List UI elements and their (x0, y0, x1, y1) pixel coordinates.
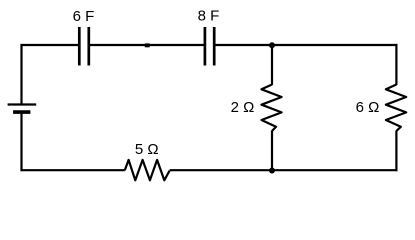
wire from top junction to top-right corner (272, 44, 398, 46)
resistor R1 5 ohm (125, 160, 170, 180)
svg-text:6 Ω: 6 Ω (356, 99, 380, 116)
resistor R3 6 ohm (386, 85, 406, 132)
node bottom junction dot (269, 168, 275, 174)
wire middle branch lower (271, 131, 273, 171)
node top junction dot (269, 42, 275, 48)
capacitor C2 8 F (205, 27, 214, 66)
capacitor C1 6 F (79, 27, 89, 66)
label 5 ohm (135, 141, 159, 158)
svg-text:6 F: 6 F (73, 8, 95, 25)
wire bottom right segment (272, 169, 398, 171)
resistor R2 2 ohm (262, 85, 282, 132)
wire right side upper (395, 44, 397, 85)
wire right side lower (395, 131, 397, 172)
wire bottom middle segment (170, 169, 272, 171)
wire left side upper (20, 44, 22, 104)
battery V1 (8, 105, 37, 113)
wire top-left segment (21, 44, 80, 46)
junction blip on top wire (145, 43, 150, 47)
wire from C2 to top junction (214, 44, 272, 46)
wire middle branch upper (271, 45, 273, 85)
svg-text:2 Ω: 2 Ω (231, 99, 255, 116)
wire bottom-left segment (21, 169, 125, 171)
label 2 ohm (231, 99, 255, 116)
label 6 F (73, 8, 95, 25)
label 8 F (198, 8, 220, 25)
wire left side lower (20, 113, 22, 172)
svg-text:5 Ω: 5 Ω (135, 141, 159, 158)
wire between C1 and C2 (89, 44, 205, 46)
label 6 ohm (356, 99, 380, 116)
svg-text:8 F: 8 F (198, 8, 220, 25)
